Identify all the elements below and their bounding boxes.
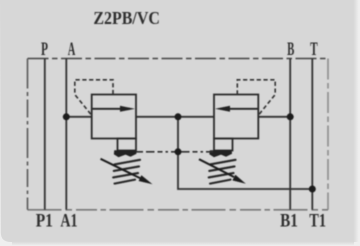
valve V2 pilot line (dashed): [237, 80, 275, 114]
wire drain to T line: [178, 117, 312, 189]
svg-text:T: T: [310, 39, 318, 60]
valve V1 spring: [113, 150, 140, 183]
wire T to T1: [311, 59, 313, 210]
valve V2 spring: [209, 150, 236, 183]
svg-text:A1: A1: [60, 210, 77, 231]
svg-text:T1: T1: [309, 210, 326, 231]
svg-text:P1: P1: [36, 210, 53, 231]
wire valve V1 to valve V2: [136, 116, 214, 118]
counterbalance valve V2 body: [214, 95, 258, 139]
wire valve V2 to node B: [258, 116, 290, 118]
wire A to A1: [65, 59, 67, 210]
enclosure boundary right edge (chain line): [327, 59, 329, 210]
valve V2 pilot area box: [214, 139, 233, 151]
valve V1 adjustment arrow: [101, 159, 153, 185]
node T junction: [309, 186, 316, 193]
valve V1 pilot area box: [118, 139, 137, 151]
wire P to P1: [44, 59, 46, 210]
node B junction: [287, 113, 294, 120]
drain gallery line (dash-dot) between spring chambers: [136, 151, 214, 153]
svg-text:Z2PB/VC: Z2PB/VC: [93, 8, 159, 28]
wire B to B1: [289, 59, 291, 210]
wire node A to valve V1 inlet: [66, 116, 91, 118]
valve V1 flow arrow: [93, 106, 136, 112]
svg-text:B: B: [287, 39, 294, 60]
enclosure boundary top edge (chain line): [28, 58, 329, 60]
svg-text:P: P: [41, 39, 48, 60]
node drain junction: [175, 148, 182, 155]
svg-text:A: A: [68, 39, 76, 60]
valve V2 adjustment arrow: [199, 159, 246, 184]
enclosure boundary left edge (chain line): [27, 59, 29, 210]
node A junction: [63, 113, 70, 120]
node mid junction: [175, 113, 182, 120]
svg-text:B1: B1: [280, 210, 298, 231]
valve V2 flow arrow: [215, 106, 258, 112]
counterbalance valve V1 body: [92, 95, 136, 139]
enclosure boundary bottom edge (chain line): [28, 209, 329, 211]
valve V1 pilot line (dashed): [75, 80, 113, 114]
